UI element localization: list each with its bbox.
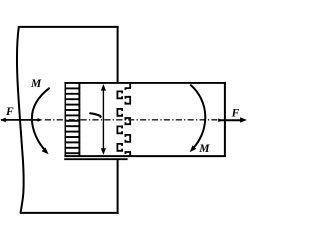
right force F arrowhead (tip at right) [240,117,247,122]
zipper right bracket 4 [125,152,130,156]
left force F shaft [1,119,38,121]
zipper left bracket 4 [117,144,122,151]
label l (italic stroke) [90,113,100,117]
left force F arrowhead (tip at left) [0,118,6,123]
plate bottom edge [20,212,119,214]
zipper right bracket 2 [125,118,130,124]
bar right edge [224,82,226,157]
svg-text:F: F [231,107,240,119]
plate left curved (broken) edge [17,26,24,213]
zipper right bracket 3 [125,135,130,142]
zipper left bracket 1 [117,91,122,98]
dash-dot centerline [45,119,218,121]
left moment M arc [32,88,50,151]
left moment arrowhead (points SE) [42,147,49,154]
bar (horizontal beam) top edge [64,82,226,84]
svg-text:M: M [30,78,42,90]
dimension bottom arrowhead [101,148,106,155]
zipper left bracket 3 [117,126,122,133]
dimension line l shaft [102,89,104,150]
right force F shaft [218,119,241,121]
intermittent weld zipper: top stub bracket [125,83,130,90]
dimension top arrowhead [101,84,106,91]
plate right edge lower segment [117,159,119,214]
right moment M arc [190,85,205,148]
svg-text:M: M [198,143,210,155]
right moment arrowhead (points SW) [190,145,197,152]
weld strip right edge [78,83,80,156]
zipper right bracket 1 [125,97,130,104]
small inner arrowhead left [38,118,43,122]
zipper left bracket 2 [117,109,122,116]
weld strip (hatched ladder) left edge [64,83,66,156]
weld strip lower line [64,158,127,160]
plate right edge upper segment [117,26,119,83]
plate (vertical column) top edge [19,26,119,28]
svg-text:F: F [5,106,14,118]
weld strip hatch rungs [65,88,81,153]
bar bottom edge [64,155,226,157]
small inner arrowhead right [218,118,222,122]
